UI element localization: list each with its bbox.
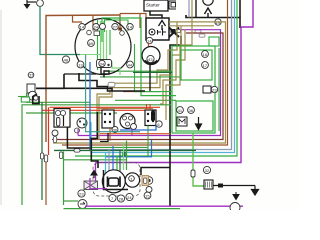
black dynamo drop [149, 65, 151, 92]
svg-text:17: 17 [203, 63, 208, 68]
green horn stub [18, 96, 27, 98]
white pills mid [195, 30, 201, 33]
light green verticals [101, 21, 107, 62]
wire olive x224 [53, 22, 226, 143]
bottom edge circle [230, 203, 240, 213]
wire brown left drop pill [44, 155, 47, 162]
terminal dots left of green box [152, 110, 155, 113]
green verticals bright [98, 20, 111, 70]
wire brown upper run [120, 14, 146, 19]
node circle 23r [211, 86, 217, 92]
overdrive relay [84, 181, 98, 190]
wire teal from node down then right [40, 6, 80, 55]
wire green pump drop [193, 133, 204, 186]
node 6 [156, 121, 162, 127]
svg-text:24: 24 [94, 25, 99, 30]
scan edge left [0, 10, 2, 205]
pill dark green [40, 153, 43, 159]
cutout X [169, 28, 179, 38]
node circle 32 [203, 166, 210, 173]
maroon dash h [123, 91, 160, 93]
plug connector left of purple row [171, 29, 176, 33]
wire black starter drop [150, 11, 162, 18]
wire purple inner x218 [78, 30, 221, 136]
dark green cross h [133, 71, 172, 73]
dash switch A [102, 110, 114, 128]
node 28 [117, 195, 124, 202]
svg-text:23: 23 [79, 191, 84, 196]
node circle 41 [177, 107, 184, 114]
svg-text:14: 14 [128, 25, 133, 30]
dashed body outline [93, 163, 140, 197]
green bottom drop [63, 152, 65, 206]
svg-text:15: 15 [145, 193, 150, 198]
node 7 [109, 194, 116, 201]
svg-text:16: 16 [203, 52, 208, 57]
node 24 [93, 24, 99, 30]
blue L mid [120, 126, 156, 131]
svg-text:36: 36 [189, 108, 194, 113]
blue vertical left [89, 62, 91, 147]
light switch circle [120, 114, 135, 129]
ground arrow relay [91, 171, 97, 179]
wire black pump to ground [213, 185, 255, 187]
battery bars [158, 29, 167, 36]
node circle 36b [188, 107, 195, 114]
black staircase under instrument [36, 74, 64, 88]
wire black top bus [186, 15, 240, 28]
wire brown drop x93 [92, 16, 94, 31]
wire red left drop [48, 107, 50, 155]
node circle 2 [37, 0, 44, 6]
ammeter terminal [149, 29, 155, 35]
starter motor bracket [169, 1, 176, 9]
wire olive2 x227b [169, 25, 214, 27]
green box lower inner [176, 101, 213, 131]
wire red short [148, 44, 150, 47]
black dash drop to lamp [91, 112, 98, 168]
svg-text:69: 69 [89, 41, 94, 46]
purple stub up [77, 129, 79, 136]
arrow up in box [159, 21, 166, 31]
red stubs above A [103, 108, 105, 110]
svg-text:34: 34 [100, 61, 105, 66]
wire brown drop x72 [73, 16, 83, 23]
black box edges top [239, 0, 241, 18]
horn bell [28, 91, 37, 100]
green light bus [60, 152, 62, 159]
svg-text:28: 28 [119, 196, 124, 201]
node 14c [127, 24, 133, 30]
tiny box label [94, 31, 100, 36]
tan box right of lamps [142, 176, 149, 186]
small box lamp [203, 86, 211, 93]
node 36 [112, 127, 118, 133]
node circle 16 [202, 51, 209, 58]
node 15 [144, 192, 151, 199]
wire lt-green teal link [80, 54, 101, 56]
orange dash h [100, 133, 170, 135]
green bottom bus [64, 208, 181, 210]
headlamp L1 [102, 170, 125, 193]
fuse box green [21, 97, 29, 102]
svg-text:27: 27 [113, 25, 118, 30]
khaki staircase 4 [166, 0, 192, 120]
svg-text:Starter: Starter [146, 3, 160, 8]
wire black main vertical [170, 36, 181, 206]
small ground arrow above circle [233, 192, 239, 200]
pill on dark green [74, 149, 80, 152]
svg-text:37: 37 [29, 74, 33, 78]
node circle 37 [28, 72, 34, 78]
khaki staircase 2 [99, 26, 181, 140]
svg-text:14: 14 [80, 25, 85, 30]
green bus local [90, 146, 148, 148]
node circle 43 [147, 55, 154, 62]
dash switch B [145, 110, 156, 126]
black lamp wiring [104, 170, 129, 190]
wire green h2 [22, 105, 171, 205]
green box right outer [172, 46, 215, 133]
svg-text:44: 44 [128, 62, 133, 67]
headlamp L2 [125, 173, 139, 187]
short risers switch to bus [109, 128, 111, 141]
wire brown drop x120 [119, 14, 121, 29]
green vertical x219 [218, 48, 220, 131]
side circles 31 [145, 177, 153, 185]
node 23 [78, 190, 85, 197]
dark green bus [54, 149, 196, 151]
green bus lower [64, 159, 127, 161]
ground arrow mid-right [196, 117, 202, 130]
svg-text:23: 23 [212, 87, 217, 92]
crank node 45 [78, 200, 87, 209]
wiper motor box [54, 109, 70, 128]
tiny node b [120, 31, 125, 36]
black wiper drop [67, 127, 91, 148]
black U loop [33, 96, 39, 104]
green connector blob [122, 152, 125, 158]
wire brown main loop [46, 15, 120, 142]
side circle 29 [146, 187, 152, 193]
wire green dash h [115, 99, 176, 101]
green to crank [64, 200, 79, 202]
wire green instrument to box [108, 70, 172, 72]
box 34 [97, 60, 112, 68]
wire green instrument to box 2 [100, 76, 181, 78]
arrow up mid [205, 8, 212, 18]
switch circle small [77, 118, 87, 128]
wire green x236 [75, 0, 237, 156]
node circle 19 [215, 19, 221, 25]
green box right inner [181, 50, 212, 80]
svg-text:41: 41 [178, 108, 183, 113]
node circle 69 [88, 40, 95, 47]
wire slate x230 [89, 0, 232, 150]
red stubs above B [146, 104, 148, 110]
node 13 [77, 61, 84, 68]
connector pill on green [191, 170, 195, 177]
node B [52, 130, 58, 136]
node 36c [75, 128, 80, 133]
svg-text:43: 43 [148, 57, 153, 62]
dynamo [142, 47, 160, 65]
lamp drops [106, 141, 127, 174]
black jog mid band [100, 133, 108, 142]
svg-text:24: 24 [127, 195, 132, 200]
green inner box instrument [105, 20, 129, 32]
khaki staircase 1 [97, 22, 177, 140]
purple relay drop [95, 163, 97, 182]
instrument circle [75, 19, 131, 75]
teal dash h [86, 55, 140, 132]
starter box [144, 0, 168, 11]
node 24c [126, 193, 133, 200]
svg-text:13: 13 [78, 62, 83, 67]
ground arrow bottom right [252, 186, 259, 196]
node 24b [100, 23, 106, 29]
wire green h3 [26, 112, 117, 114]
fuel pump box [204, 180, 213, 189]
node 47 [131, 124, 137, 130]
purple under lamp [90, 178, 107, 189]
node circle 14 dynamo [146, 37, 152, 43]
solenoid battery box [146, 18, 169, 40]
blue bus lower [105, 140, 152, 157]
black connector under box34 [101, 68, 109, 78]
node circle 17 [202, 62, 209, 69]
gauge circle [203, 0, 213, 5]
svg-text:14: 14 [147, 38, 152, 43]
tiny node a [87, 30, 92, 35]
purple bottom bus [85, 205, 243, 207]
flasher box [177, 117, 187, 126]
khaki staircase 3 [160, 29, 185, 104]
wire purple outer x241 [96, 0, 254, 163]
wire blue top stub [188, 0, 190, 18]
wire red h1 [50, 106, 160, 108]
ground arrow top-left [24, 0, 37, 9]
white pill on black [108, 82, 115, 87]
svg-text:32: 32 [205, 168, 210, 173]
wire cyan x233 [91, 0, 235, 153]
wire dark green left drop [41, 102, 43, 153]
wire red h2 [42, 109, 146, 111]
plug on black [218, 184, 223, 188]
node 27 [112, 24, 118, 30]
green staircase inside instrument [107, 55, 121, 75]
green mini box [209, 37, 219, 46]
wire maroon x221 [52, 33, 223, 140]
bottom row node 48 [62, 56, 69, 63]
green outer box instrument [102, 18, 176, 96]
wire brown x227 [62, 0, 228, 145]
green mid vertical [135, 44, 173, 92]
khaki to dash [97, 108, 153, 110]
wire brown drop x140 [139, 14, 141, 29]
horn body [27, 84, 35, 93]
svg-text:48: 48 [64, 57, 69, 62]
node 44 [127, 61, 134, 68]
green horn loop [27, 93, 91, 102]
circle row top: node 14a [79, 24, 85, 30]
